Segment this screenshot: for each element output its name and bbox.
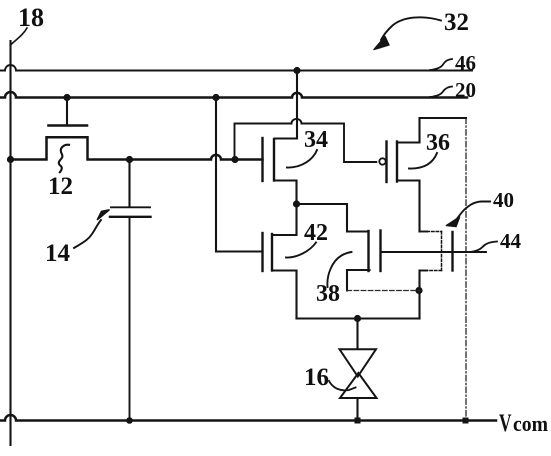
vertical wire from line 20 to gate of 42 (216, 98, 263, 252)
diode 16 bottom triangle (340, 373, 377, 398)
junction dot common vertical to Vcom (463, 418, 469, 424)
vertical from line 46 to drain of 34 (296, 71, 298, 139)
transistor 42 channel bar (271, 234, 273, 271)
Vcom line (bottom horizontal) (0, 415, 496, 421)
junction dot: gate of 12 on line 20 (63, 94, 70, 101)
svg-text:18: 18 (18, 3, 44, 32)
leader from 34 (287, 150, 317, 168)
svg-text:20: 20 (455, 78, 476, 102)
transistor 36 drain lead up and right (397, 118, 466, 143)
transistor 42 source lead down (273, 271, 297, 319)
common line vertical (dash-dot) (465, 118, 467, 421)
svg-text:36: 36 (426, 130, 450, 156)
leader from 38 (327, 252, 351, 287)
transistor 34 source lead down to node with 42 drain (273, 181, 297, 236)
transistor 38 gate bar (379, 231, 381, 272)
svg-text:44: 44 (500, 229, 522, 253)
node wire W5 bottom (297, 317, 420, 319)
junction dot at 40 bottom node (415, 287, 422, 294)
junction dot: vertical to 42 gate on line 20 (212, 94, 219, 101)
transistor 40 top lead (dashed part) (427, 231, 442, 233)
svg-text:34: 34 (304, 127, 328, 153)
leader arrow from 40 (456, 202, 491, 221)
line 20 (gate line horizontal) (0, 92, 467, 97)
leader for label 20 (430, 87, 452, 98)
svg-text:com: com (513, 411, 548, 436)
junction dot on W1 at left line (7, 156, 14, 163)
transistor 40 lead down to node (418, 271, 420, 319)
junction dot on W1 to capacitor 14 (126, 156, 133, 163)
transistor 36 source lead down (397, 181, 420, 232)
capacitor 14 bottom lead to Vcom (129, 218, 131, 421)
leader for label 44 (470, 242, 497, 253)
curved arrow from label 32 (381, 17, 441, 40)
capacitor 14 bottom plate (110, 216, 151, 218)
svg-text:12: 12 (48, 173, 73, 200)
diode 16 top lead (356, 319, 358, 349)
diode 16 top triangle (340, 349, 377, 376)
transistor 36 gate bar (385, 142, 387, 183)
svg-text:40: 40 (493, 188, 514, 212)
junction dot diode to Vcom (355, 418, 361, 424)
transistor 36 gate bubble (379, 158, 385, 164)
transistor 34 drain lead (275, 137, 297, 139)
transistor 40 bottom lead (dashed part) (427, 270, 442, 272)
arrowhead of 32 (374, 37, 389, 50)
transistor 40 dashed side (441, 232, 443, 271)
arrowhead of 14 (98, 210, 110, 220)
line 46 (top horizontal) (0, 65, 472, 71)
TFT 12 gate lead from line 20 (66, 98, 68, 125)
transistor 40 top lead (solid part) (420, 231, 428, 233)
leader from label 18 (12, 28, 28, 44)
svg-text:16: 16 (304, 364, 329, 391)
wire W3 from node to top lead of 38 (297, 204, 369, 232)
junction dot capacitor 14 to Vcom (126, 417, 133, 424)
wire W2 from node to gate of 36 (235, 119, 377, 162)
TFT 12 gate bar (49, 124, 88, 127)
transistor 38 bottom lead (347, 270, 370, 291)
leader arrow from 14 (74, 220, 101, 248)
wire W6 (faint) from 38 leg to 40 node (347, 290, 420, 292)
leader from 36 (409, 153, 437, 169)
svg-text:32: 32 (444, 9, 469, 36)
junction dot on W1 at 36-gate branch (231, 156, 238, 163)
transistor 34 channel bar (273, 139, 275, 181)
svg-text:V: V (499, 410, 512, 437)
transistor 34 gate bar (261, 138, 263, 181)
transistor 36 channel bar (396, 142, 398, 182)
transistor 38 channel bar (367, 231, 369, 271)
junction dot to diode 16 (354, 315, 361, 322)
svg-text:46: 46 (455, 51, 476, 75)
leader from 16 (329, 381, 356, 390)
leader for label 46 (430, 59, 452, 70)
svg-text:14: 14 (45, 240, 71, 267)
diode 16 bottom lead (356, 398, 358, 421)
transistor 40 channel bar (451, 232, 453, 271)
junction dot node 34/42 (293, 200, 300, 207)
capacitor 14 top lead (128, 160, 130, 207)
capacitor 14 top plate (111, 206, 150, 208)
arrowhead of 40 (447, 217, 460, 227)
leader from 42 (286, 243, 316, 258)
junction dot: 34 drain feed on line 46 (293, 67, 300, 74)
squiggle leader of 12 inside channel (59, 145, 69, 172)
transistor 42 gate bar (261, 233, 263, 271)
node wire W1 with TFT 12 channel plateau (11, 137, 263, 159)
data line 18 (left vertical wire) (9, 41, 11, 445)
transistor 40 bottom lead (solid part) (420, 270, 428, 272)
line 44 from gate of 38 (381, 251, 487, 253)
